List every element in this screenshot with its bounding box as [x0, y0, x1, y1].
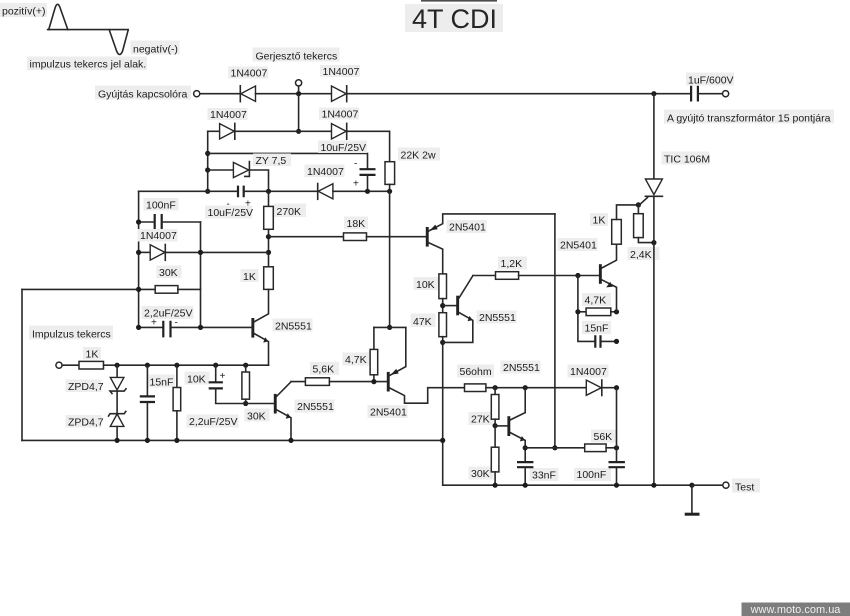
terminal to transformer: [723, 91, 729, 97]
svg-text:10K: 10K: [416, 279, 435, 291]
capacitor C1 1uF/600V: [686, 73, 734, 102]
waveform pulse illustration: [0, 3, 180, 71]
node row5 cap2: [365, 189, 370, 194]
wire row5 mid: [244, 190, 318, 192]
capacitor 33nF: [517, 462, 559, 485]
node ground 10K: [174, 438, 179, 443]
svg-text:270K: 270K: [277, 206, 302, 218]
node diode6 row right: [266, 250, 271, 255]
svg-text:A gyújtó transzformátor 15 pon: A gyújtó transzformátor 15 pontjára: [667, 112, 831, 124]
wire Q5 base: [443, 305, 457, 307]
diode ZPD4,7 lower (zener, cathode up): [66, 391, 126, 440]
diode D1 1N4007 (row1 left, cathode left): [228, 67, 268, 102]
node ground 33nF: [523, 483, 528, 488]
diode D6 1N4007 (cathode right): [138, 229, 269, 260]
capacitor C4 100nF: [139, 198, 201, 230]
diode D8 1N4007 (output, cathode right): [568, 365, 617, 396]
transistor Q3 2N5401 (PNP driver): [368, 327, 465, 418]
svg-text:Test: Test: [735, 481, 754, 493]
watermark bar: [742, 603, 850, 616]
resistor 56K: [525, 430, 616, 452]
resistor 56ohm: [457, 365, 494, 392]
resistor 1K (Q1 collector): [241, 267, 274, 290]
svg-text:15nF: 15nF: [585, 323, 609, 335]
capacitor 100nF (output): [574, 462, 625, 485]
label Gerjeszto tekercs: [253, 48, 340, 62]
resistor 270K: [264, 191, 306, 229]
thyristor U1 TIC 106M: [639, 152, 710, 486]
wire Q7 base: [495, 425, 507, 427]
resistor 4,7K (Q3 bias): [343, 327, 378, 381]
svg-text:1,2K: 1,2K: [501, 258, 523, 270]
node 10K top: [174, 363, 179, 368]
node 30K top: [243, 363, 248, 368]
transistor Q6 2N5401 (right PNP): [558, 238, 617, 312]
svg-text:Gyújtás kapcsolóra: Gyújtás kapcsolóra: [98, 89, 187, 101]
node 2,2uF top: [213, 363, 218, 368]
svg-text:1N4007: 1N4007: [322, 109, 359, 121]
label Impulzus tekercs: [29, 326, 113, 340]
svg-text:1K: 1K: [593, 215, 606, 227]
svg-text:22K 2w: 22K 2w: [401, 150, 436, 162]
resistor 30K (Q2 base): [242, 365, 270, 422]
svg-text:1N4007: 1N4007: [231, 68, 268, 80]
label negativ: [131, 41, 180, 55]
ground symbol: [691, 485, 693, 513]
resistor 30K (Q7 base-gnd): [469, 426, 499, 486]
wire node drop to row2: [298, 94, 300, 132]
wire rail x554.9 (Q4 emitter drop): [554, 214, 556, 448]
node Q3 base join: [371, 379, 376, 384]
wire impulzus pickup box left edge: [21, 289, 23, 440]
resistor 2,4K: [628, 205, 660, 261]
wire left rail x138.6: [138, 191, 140, 327]
capacitor C5 2,2uF/25V (Q1 base): [139, 306, 252, 337]
svg-text:4T CDI: 4T CDI: [412, 4, 497, 34]
wire feedback branch x577.9: [578, 276, 595, 342]
node rail207 zyrow: [205, 167, 210, 172]
svg-text:2,4K: 2,4K: [630, 249, 652, 261]
svg-text:Gerjesztő tekercs: Gerjesztő tekercs: [256, 50, 338, 62]
svg-text:2N5401: 2N5401: [449, 222, 486, 234]
waveform negative pulse: [109, 30, 128, 55]
svg-text:47K: 47K: [413, 316, 432, 328]
transistor Q4 2N5401 (top PNP): [426, 214, 555, 274]
node 18K row: [266, 234, 271, 239]
node ground 15nF: [145, 438, 150, 443]
node Q2 base join: [243, 401, 248, 406]
resistor 22K 2w: [385, 148, 440, 185]
node left rail 100nF row: [136, 219, 141, 224]
label Test: [732, 479, 760, 493]
node rail207 row3: [205, 151, 210, 156]
node feedback right: [614, 309, 619, 314]
resistor 10K (Q4 collector): [414, 274, 447, 299]
svg-text:2N5551: 2N5551: [297, 401, 334, 413]
svg-text:56ohm: 56ohm: [460, 366, 492, 378]
wire terminal drop: [298, 86, 300, 94]
wire ground bus upper: [22, 439, 443, 441]
svg-text:1K: 1K: [86, 349, 99, 361]
svg-text:18K: 18K: [347, 218, 366, 230]
svg-text:pozitív(+): pozitív(+): [2, 6, 45, 18]
resistor 4,7K (feedback): [578, 293, 617, 316]
wire rail x389.6 (22K feed down): [389, 191, 391, 327]
svg-text:2N5401: 2N5401: [370, 407, 407, 419]
wire rail x207.7 row2 to row5: [207, 131, 209, 191]
resistor 1K (impulzus series): [62, 347, 103, 369]
svg-text:30K: 30K: [159, 267, 178, 279]
node rail207 row5: [205, 189, 210, 194]
node left rail 30K row: [136, 287, 141, 292]
svg-text:1N4007: 1N4007: [210, 109, 247, 121]
terminal impulzus: [56, 362, 62, 368]
node 15nF right: [614, 339, 619, 344]
svg-text:27K: 27K: [471, 414, 490, 426]
transistor Q7 2N5551 (output clamp NPN): [501, 361, 541, 463]
transistor Q5 2N5551 (mid NPN): [443, 276, 517, 343]
node D8 out: [614, 385, 619, 390]
top edge cropped artifact line: [421, 0, 497, 2]
label impulzus tekercs jel alak: [27, 57, 147, 71]
node 27K top: [493, 385, 498, 390]
wire row1 mid: [256, 93, 332, 95]
node ground 27K: [493, 483, 498, 488]
node rail389 y327: [387, 325, 392, 330]
resistor 1,2K: [473, 257, 599, 280]
label A gyujto transzformator 15 pontjara: [664, 110, 834, 124]
svg-text:2N5551: 2N5551: [503, 362, 540, 374]
node Q5 base join: [440, 303, 445, 308]
resistor 30K (first stage bias): [22, 266, 201, 294]
node 15nF top: [145, 363, 150, 368]
svg-text:100nF: 100nF: [577, 469, 607, 481]
svg-text:+: +: [220, 371, 226, 382]
svg-text:33nF: 33nF: [532, 470, 556, 482]
wire to Test terminal: [692, 484, 723, 486]
wire row1 right long: [347, 93, 691, 95]
wire row2 mid: [235, 130, 332, 132]
terminal Test: [723, 482, 729, 488]
node row1 SCR anode: [651, 91, 656, 96]
node 1,2K / feedback join: [575, 273, 580, 278]
svg-text:1N4007: 1N4007: [307, 166, 344, 178]
wire row5 right: [333, 190, 390, 192]
transistor Q2 2N5551 (second stage NPN): [274, 382, 335, 441]
svg-text:15nF: 15nF: [150, 377, 174, 389]
node zpd top: [115, 363, 120, 368]
svg-text:+: +: [151, 318, 157, 329]
wire 1K top to gate node: [617, 205, 639, 220]
node 56K right: [614, 445, 619, 450]
svg-text:2N5551: 2N5551: [275, 321, 312, 333]
svg-text:+: +: [245, 199, 251, 210]
wire rail x616.5 (D8 out down): [616, 388, 618, 462]
svg-text:1N4007: 1N4007: [570, 366, 607, 378]
svg-text:ZY 7,5: ZY 7,5: [256, 155, 287, 167]
node rail442 y342: [440, 340, 445, 345]
node Q7 collector top: [523, 385, 528, 390]
wire rail x442.7 down to ground: [443, 337, 692, 486]
svg-text:10K: 10K: [187, 374, 206, 386]
svg-text:Impulzus tekercs: Impulzus tekercs: [32, 329, 111, 341]
node 2,4K to cathode rail: [651, 240, 656, 245]
svg-text:30K: 30K: [471, 468, 490, 480]
node left rail diode row: [136, 250, 141, 255]
svg-text:5,6K: 5,6K: [313, 364, 335, 376]
node row5 zy-drop: [266, 189, 271, 194]
transistor Q1 2N5551 (first stage NPN): [251, 289, 312, 365]
svg-text:TIC 106M: TIC 106M: [664, 154, 710, 166]
resistor 47K: [411, 313, 447, 337]
diode D5 1N4007 (row5, cathode left): [305, 165, 345, 200]
diode ZPD4,7 upper (zener, cathode down): [66, 365, 127, 393]
capacitor 15nF (feedback): [582, 321, 617, 348]
wire row2 left stub: [208, 130, 219, 132]
svg-text:30K: 30K: [247, 411, 266, 423]
resistor 1K (Q6 emitter): [590, 213, 621, 244]
wire row1 left: [200, 93, 241, 95]
wire SCR anode rail: [653, 94, 655, 179]
node ground 100nF: [614, 483, 619, 488]
svg-text:100nF: 100nF: [146, 200, 176, 212]
resistor 5,6K (Q2 collector load): [291, 362, 387, 385]
wire 270K bottom to 1K: [268, 229, 270, 266]
svg-text:ZPD4,7: ZPD4,7: [68, 381, 104, 393]
node 56K left: [552, 445, 557, 450]
svg-text:4,7K: 4,7K: [585, 295, 607, 307]
capacitor C2 10uF/25V (vertical, on row3/row5): [318, 141, 376, 192]
wire 22K bottom: [389, 184, 391, 191]
svg-text:+: +: [353, 179, 359, 190]
svg-text:www.moto.com.ua: www.moto.com.ua: [750, 604, 842, 616]
title 4T CDI: [405, 4, 503, 32]
wire 10K bottom to node: [442, 299, 444, 313]
node rail442 ground bus: [440, 438, 445, 443]
svg-text:56K: 56K: [594, 431, 613, 443]
capacitor C3 10uF/25V (horizontal on row5): [205, 186, 253, 219]
wire output row y387.7: [486, 387, 586, 389]
svg-text:-: -: [227, 199, 230, 210]
svg-text:1N4007: 1N4007: [140, 230, 177, 242]
capacitor 15nF (pulse filter): [140, 365, 175, 440]
wire row3: [208, 153, 368, 169]
wire Q2 base: [246, 403, 274, 405]
svg-text:4,7K: 4,7K: [345, 354, 367, 366]
wire signal row y365: [104, 364, 269, 366]
diode D7 zener ZY 7,5 (cathode right): [208, 154, 291, 192]
diode D2 1N4007 (row1 right, cathode right): [320, 65, 360, 102]
svg-text:1K: 1K: [243, 271, 256, 283]
svg-text:negatív(-): negatív(-): [133, 44, 178, 56]
wire row5 left: [139, 190, 238, 192]
diode D3 1N4007 (row2 left, cathode right): [208, 108, 248, 139]
resistor 27K: [469, 388, 499, 426]
diode D4 1N4007 (row2 right, cathode right): [319, 108, 359, 140]
resistor 10K (pulse load): [173, 365, 209, 440]
terminal Gyujtas kapcsolora: [194, 91, 200, 97]
node ground Q2 emitter: [288, 438, 293, 443]
node Q7 emitter / 56K row junction: [523, 445, 528, 450]
wire vert x200.5: [200, 222, 202, 327]
wire row2 right to 22K: [347, 131, 390, 161]
node SCR gate: [636, 202, 641, 207]
node Q7 base: [493, 423, 498, 428]
svg-text:ZPD4,7: ZPD4,7: [68, 417, 104, 429]
svg-text:impulzus tekercs jel alak.: impulzus tekercs jel alak.: [30, 59, 147, 71]
svg-text:2,2uF/25V: 2,2uF/25V: [189, 416, 237, 428]
svg-text:10uF/25V: 10uF/25V: [321, 142, 367, 154]
waveform baseline: [48, 29, 129, 31]
node row5 22K corner: [387, 189, 392, 194]
svg-text:1uF/600V: 1uF/600V: [688, 74, 734, 86]
node row1/row2 link: [296, 91, 301, 96]
label Gyujtas kapcsolora: [95, 86, 191, 100]
node left rail cap row: [136, 325, 141, 330]
node x200.5 cap row: [198, 325, 203, 330]
svg-text:2N5401: 2N5401: [560, 240, 597, 252]
svg-text:-: -: [354, 159, 357, 170]
node ground SCR cathode: [651, 483, 656, 488]
svg-text:2N5551: 2N5551: [479, 312, 516, 324]
node x200.5 diode row: [198, 250, 203, 255]
terminal Gerjeszto tekercs: [296, 80, 302, 86]
wire 4,7K top run: [374, 326, 406, 328]
resistor 18K: [269, 217, 426, 241]
node ground symbol join: [689, 483, 694, 488]
label pozitiv: [0, 3, 47, 17]
svg-text:1N4007: 1N4007: [323, 66, 360, 78]
capacitor 2,2uF/25V (coupling): [187, 365, 246, 428]
node ground zpd: [115, 438, 120, 443]
waveform positive pulse: [49, 4, 68, 29]
node feedback left: [575, 309, 580, 314]
